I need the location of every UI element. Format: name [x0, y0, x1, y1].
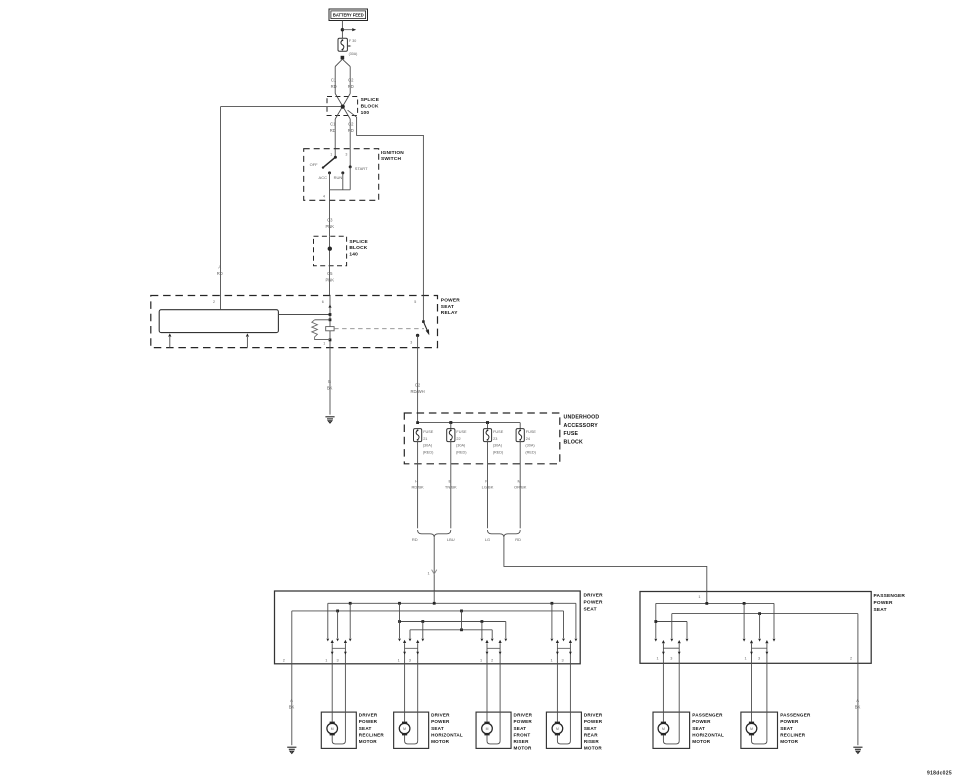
svg-text:6: 6: [322, 300, 324, 304]
wire fuse output: [450, 442, 452, 529]
driver switch bus A: [328, 602, 576, 604]
bus A left drop: [655, 603, 657, 638]
svg-text:C1: C1: [331, 78, 337, 83]
wire to motor -: [499, 664, 501, 741]
svg-text:LG/BK: LG/BK: [482, 485, 494, 490]
ignition pivot: [334, 156, 337, 159]
svg-text:RECLINER: RECLINER: [359, 732, 385, 737]
wire RUN down: [342, 173, 344, 190]
svg-text:RD: RD: [515, 537, 521, 542]
svg-text:POWER: POWER: [359, 719, 378, 724]
wire to motor +: [331, 664, 333, 722]
splice X leg: [335, 94, 350, 120]
svg-text:H: H: [415, 479, 418, 484]
svg-text:POWER: POWER: [584, 600, 603, 606]
svg-text:100: 100: [361, 110, 370, 116]
svg-text:(30A): (30A): [456, 444, 466, 448]
wire to motor +: [662, 663, 664, 721]
svg-text:(RED): (RED): [456, 450, 467, 454]
svg-text:SEAT: SEAT: [584, 607, 597, 613]
driver recliner motor M1: [321, 712, 356, 748]
ignition switch arm (OFF position): [323, 157, 335, 167]
svg-text:PNK: PNK: [325, 224, 334, 229]
driver front riser motor M3: [476, 712, 511, 748]
svg-text:RD: RD: [412, 537, 418, 542]
bus A junction: [349, 602, 352, 605]
svg-text:M: M: [331, 727, 334, 731]
bus A junction: [743, 602, 746, 605]
svg-text:(30A): (30A): [423, 444, 433, 448]
wire to motor +: [404, 664, 406, 722]
wire bus C to cluster 3 left contact: [481, 622, 483, 639]
svg-text:3: 3: [410, 341, 412, 345]
relay internal module U1: [159, 310, 278, 333]
wire ign pin3 to START contact: [349, 149, 351, 167]
splice junction S140: [328, 247, 332, 251]
junction: [329, 318, 332, 321]
power seat relay box: [151, 296, 438, 348]
svg-text:PASSENGER: PASSENGER: [874, 593, 906, 599]
svg-text:C2: C2: [348, 122, 354, 127]
svg-text:POWER: POWER: [514, 719, 533, 724]
svg-text:3: 3: [409, 658, 411, 662]
svg-text:3: 3: [670, 656, 672, 660]
relay coil L1: [315, 319, 330, 321]
wire module to coil node: [278, 314, 330, 316]
svg-text:1: 1: [398, 658, 400, 662]
svg-text:2: 2: [213, 300, 215, 304]
bus A left drop: [327, 603, 329, 638]
svg-text:C5: C5: [327, 271, 333, 276]
wire to motor -: [344, 664, 346, 741]
svg-text:3: 3: [758, 656, 760, 660]
svg-text:POWER: POWER: [780, 719, 799, 724]
bus C junction: [421, 620, 424, 623]
svg-text:RD: RD: [217, 271, 223, 276]
wire driver switch to ground: [291, 664, 293, 745]
fuse F22: [450, 423, 452, 429]
svg-text:C1: C1: [330, 122, 336, 127]
wire relay output inside box: [417, 335, 419, 347]
switch contacts passenger recliner switch: [743, 639, 746, 642]
wire to motor +: [751, 663, 753, 721]
svg-text:IGNITION: IGNITION: [381, 150, 404, 156]
svg-text:M: M: [486, 727, 489, 731]
svg-text:21: 21: [423, 437, 427, 441]
svg-text:FUSE: FUSE: [423, 430, 434, 434]
wire ACC down: [329, 173, 331, 190]
svg-text:C2: C2: [415, 383, 421, 388]
svg-text:OR/BK: OR/BK: [514, 485, 527, 490]
wire fuse output: [417, 442, 419, 529]
svg-text:(30A): (30A): [525, 444, 535, 448]
svg-text:RD: RD: [348, 84, 354, 89]
relay fixed contact: [416, 334, 419, 337]
svg-text:RD: RD: [330, 128, 336, 133]
wire to motor +: [486, 664, 488, 722]
svg-text:HORIZONTAL: HORIZONTAL: [692, 732, 724, 737]
svg-text:24: 24: [526, 437, 530, 441]
svg-text:ACC: ACC: [319, 175, 328, 180]
svg-text:OFF: OFF: [310, 162, 319, 167]
svg-text:4: 4: [323, 195, 325, 199]
bus B right drop: [563, 611, 565, 638]
driver switch bus D: [410, 629, 492, 631]
svg-text:RECLINER: RECLINER: [780, 732, 806, 737]
driver horizontal motor M2: [394, 712, 429, 748]
passenger switch bus A: [656, 602, 774, 604]
driver power seat switch box: [275, 591, 581, 664]
fuse F23: [487, 423, 489, 429]
svg-text:2: 2: [491, 658, 493, 662]
switch contacts passenger horizontal switch: [654, 639, 657, 642]
svg-text:RELAY: RELAY: [441, 310, 458, 316]
svg-text:SWITCH: SWITCH: [381, 156, 401, 162]
bus C junction: [481, 620, 484, 623]
svg-text:FRONT: FRONT: [514, 732, 531, 737]
svg-text:UNDERHOOD: UNDERHOOD: [564, 415, 600, 421]
wire splice to left run: [221, 106, 342, 108]
wire feed into driver switch: [433, 591, 435, 603]
svg-text:M: M: [556, 727, 559, 731]
wire right branch down: [349, 67, 351, 94]
wire splice to left branch: [335, 59, 342, 66]
wire bus A to cluster 2 left contact: [399, 603, 401, 638]
wire ign pin1 to pivot: [334, 149, 336, 158]
svg-text:BK: BK: [327, 385, 333, 390]
in-line connector arrow: [341, 28, 344, 31]
wire relay pin2 into module: [220, 296, 222, 310]
svg-text:1: 1: [428, 571, 430, 575]
svg-text:RD/BK: RD/BK: [411, 485, 424, 490]
bus D junction: [460, 628, 463, 631]
module output arrow: [246, 333, 249, 336]
bus B ground drop: [857, 614, 859, 664]
bus A junction: [433, 602, 436, 605]
wire feed into passenger switch: [706, 592, 708, 604]
wire splice to relay contact: [348, 110, 424, 295]
svg-text:START: START: [355, 166, 368, 171]
svg-text:BK: BK: [855, 704, 861, 709]
bus junction: [486, 421, 489, 424]
wire to ignition switch pin: [349, 119, 351, 149]
svg-text:BATTERY FEED: BATTERY FEED: [333, 13, 364, 18]
svg-text:1: 1: [698, 595, 700, 599]
wire to motor +: [556, 664, 558, 722]
svg-text:1: 1: [480, 658, 482, 662]
wire ignition to splice block 140: [329, 200, 331, 236]
driver switch bus B: [292, 610, 564, 612]
ignition switch box: [304, 149, 379, 201]
junction: [329, 313, 332, 316]
bus B junction: [336, 610, 339, 613]
wire bus A to cluster 1 right contact: [349, 603, 351, 638]
svg-text:DRIVER: DRIVER: [584, 593, 604, 599]
svg-text:B: B: [328, 379, 331, 384]
bus A junction: [398, 602, 401, 605]
svg-text:RISER: RISER: [514, 739, 530, 744]
wire merged feed to passenger seat switch: [504, 537, 707, 591]
svg-text:BLOCK: BLOCK: [361, 104, 379, 110]
svg-text:M: M: [518, 479, 521, 484]
passenger switch bus E: [656, 621, 687, 623]
svg-text:(RED): (RED): [525, 450, 536, 454]
svg-text:3: 3: [561, 658, 563, 662]
bus A right drop: [575, 603, 577, 638]
bus C junction: [398, 620, 401, 623]
driver switch bus C: [400, 621, 506, 623]
fuse F21: [414, 429, 422, 442]
passenger horizontal motor M5: [653, 712, 690, 748]
wire bus B to cluster contact: [759, 614, 761, 639]
underhood accessory fuse block: [404, 413, 560, 464]
relay armature anchor: [326, 327, 334, 331]
svg-text:MOTOR: MOTOR: [359, 739, 377, 744]
svg-text:POWER: POWER: [584, 719, 603, 724]
svg-text:MOTOR: MOTOR: [584, 746, 602, 751]
junction: [329, 339, 332, 342]
wire bus C to cluster 2 right contact: [422, 622, 424, 639]
svg-text:PNK: PNK: [325, 277, 334, 282]
svg-text:RD: RD: [348, 128, 354, 133]
splice block 100: [327, 97, 358, 116]
contact START: [349, 165, 352, 168]
wire splice to right branch: [342, 59, 350, 66]
splice junction S100: [341, 105, 345, 109]
svg-text:SEAT: SEAT: [514, 726, 527, 731]
svg-text:HORIZONTAL: HORIZONTAL: [431, 732, 463, 737]
brace splice (fuses 23+24): [488, 530, 521, 537]
fuse F24: [519, 423, 521, 429]
svg-text:DRIVER: DRIVER: [584, 713, 603, 718]
contact ACC: [328, 171, 331, 174]
svg-text:3: 3: [345, 152, 347, 156]
splice (solid) below fuse: [341, 56, 345, 60]
svg-text:22: 22: [456, 437, 460, 441]
switch contacts driver recliner switch: [326, 639, 329, 642]
ground (relay coil): [325, 417, 334, 423]
wire ignition output: [329, 190, 331, 201]
svg-text:140: 140: [349, 251, 358, 257]
wire join bar: [330, 189, 351, 191]
svg-text:MOTOR: MOTOR: [780, 739, 798, 744]
svg-text:BLOCK: BLOCK: [564, 440, 583, 446]
svg-text:SEAT: SEAT: [359, 726, 372, 731]
bus B ground drop: [291, 611, 293, 664]
switch contacts driver front riser switch: [481, 639, 484, 642]
svg-text:POWER: POWER: [441, 298, 460, 304]
battery feed box: [329, 9, 368, 21]
svg-text:F 30: F 30: [349, 39, 356, 43]
svg-text:SPLICE: SPLICE: [349, 239, 368, 245]
svg-text:M: M: [403, 727, 406, 731]
svg-text:DRIVER: DRIVER: [359, 713, 378, 718]
driver rear riser motor M4: [546, 712, 581, 748]
svg-text:MOTOR: MOTOR: [431, 739, 449, 744]
wire bus A to cluster 4 left contact: [551, 603, 553, 638]
svg-text:REAR: REAR: [584, 732, 598, 737]
svg-text:A: A: [856, 698, 859, 703]
svg-text:(RED): (RED): [423, 450, 434, 454]
wire to motor -: [569, 664, 571, 741]
svg-text:RD: RD: [331, 84, 337, 89]
svg-text:1: 1: [330, 152, 332, 156]
wire bus B to bus D: [461, 611, 463, 630]
fuse F (main feed): [338, 38, 347, 51]
svg-text:1: 1: [745, 656, 747, 660]
bus B junction: [460, 610, 463, 613]
svg-text:3: 3: [336, 658, 338, 662]
svg-text:MOTOR: MOTOR: [514, 746, 532, 751]
svg-text:C3: C3: [327, 218, 333, 223]
bus A junction: [705, 602, 708, 605]
passenger power seat switch box: [640, 592, 871, 664]
bus E right drop: [686, 622, 688, 639]
svg-text:ACCESSORY: ACCESSORY: [564, 423, 599, 429]
wire relay output to fuse block: [417, 348, 419, 423]
splice X leg: [335, 94, 350, 120]
bus C right drop: [505, 622, 507, 639]
bus B left drop: [671, 614, 673, 639]
svg-text:SEAT: SEAT: [692, 726, 705, 731]
switch contacts driver rear riser switch: [551, 639, 554, 642]
wire fuse output: [487, 442, 489, 529]
svg-text:DRIVER: DRIVER: [431, 713, 450, 718]
bus A junction: [551, 602, 554, 605]
bus junction: [449, 421, 452, 424]
wire relay coil to ground: [329, 348, 331, 415]
svg-text:C2: C2: [348, 78, 354, 83]
svg-text:(30A): (30A): [493, 444, 503, 448]
passenger switch bus B: [672, 613, 858, 615]
svg-text:SPLICE: SPLICE: [361, 97, 380, 103]
svg-text:RISER: RISER: [584, 739, 600, 744]
brace splice (fuses 21+22): [418, 530, 451, 537]
contact RUN: [341, 171, 344, 174]
svg-text:LBU: LBU: [447, 537, 455, 542]
wire START down: [349, 167, 351, 190]
svg-text:M: M: [662, 727, 665, 731]
svg-text:DRIVER: DRIVER: [514, 713, 533, 718]
svg-text:SEAT: SEAT: [584, 726, 597, 731]
svg-text:E: E: [448, 479, 451, 484]
switch contacts driver horizontal switch: [398, 639, 401, 642]
bus A right drop: [773, 603, 775, 638]
in-line connector C1: [432, 570, 437, 574]
wire left branch down: [334, 67, 336, 94]
svg-text:(30A): (30A): [349, 52, 358, 56]
bus D left drop: [409, 630, 411, 638]
wire relay pin5 to contact: [422, 296, 424, 322]
wire through splice 140 to relay: [329, 236, 331, 295]
wire bus B to cluster 1 centre contact: [337, 611, 339, 638]
svg-text:(RED): (RED): [493, 450, 504, 454]
bus B junction: [758, 612, 761, 615]
wire fuse output: [519, 442, 521, 529]
wire passenger switch to ground: [857, 663, 859, 745]
svg-text:SEAT: SEAT: [441, 304, 454, 310]
wire bus A to cluster contact: [743, 603, 745, 638]
wire left run down to relay: [220, 107, 222, 296]
svg-text:POWER: POWER: [431, 719, 450, 724]
svg-text:SEAT: SEAT: [780, 726, 793, 731]
svg-text:5: 5: [414, 300, 416, 304]
svg-text:SEAT: SEAT: [431, 726, 444, 731]
svg-text:FUSE: FUSE: [526, 430, 537, 434]
svg-text:MOTOR: MOTOR: [692, 739, 710, 744]
svg-text:FUSE: FUSE: [456, 430, 467, 434]
svg-text:2: 2: [283, 658, 285, 662]
svg-text:PASSENGER: PASSENGER: [780, 713, 811, 718]
module output arrow: [168, 333, 171, 336]
svg-text:RUN: RUN: [334, 175, 343, 180]
fuse block bus bar: [418, 422, 521, 424]
splice block 140: [314, 236, 347, 265]
svg-text:RD/WH: RD/WH: [410, 389, 424, 394]
svg-text:POWER: POWER: [692, 719, 711, 724]
svg-text:TN/BK: TN/BK: [445, 485, 457, 490]
bus E junction: [654, 620, 657, 623]
svg-text:1: 1: [656, 656, 658, 660]
wire to ignition switch pin: [334, 119, 336, 149]
wire to motor -: [766, 663, 768, 741]
ground (driver seat): [287, 747, 296, 753]
wire to motor -: [678, 663, 680, 741]
svg-text:1: 1: [550, 658, 552, 662]
svg-text:BLOCK: BLOCK: [349, 245, 367, 251]
svg-text:2: 2: [850, 656, 852, 660]
svg-text:A: A: [290, 698, 293, 703]
svg-text:LG: LG: [485, 537, 490, 542]
wire battery feed to fuse: [341, 21, 343, 39]
svg-text:FUSE: FUSE: [564, 431, 579, 437]
svg-text:23: 23: [493, 437, 497, 441]
passenger recliner motor M6: [741, 712, 778, 748]
svg-text:1: 1: [323, 342, 325, 346]
wire merged feed to driver seat switch: [433, 537, 435, 591]
wire to motor -: [417, 664, 419, 741]
relay coil feed wire with arrow: [329, 296, 331, 348]
svg-text:918dc025: 918dc025: [927, 771, 952, 777]
svg-text:FUSE: FUSE: [493, 430, 504, 434]
svg-text:M: M: [750, 727, 753, 731]
svg-text:BK: BK: [289, 704, 295, 709]
svg-text:1: 1: [325, 658, 327, 662]
svg-text:SEAT: SEAT: [874, 607, 887, 613]
svg-text:A: A: [218, 265, 221, 270]
svg-text:POWER: POWER: [874, 600, 893, 606]
bus D right drop: [491, 630, 493, 638]
ground (passenger seat): [853, 747, 862, 753]
svg-text:PASSENGER: PASSENGER: [692, 713, 723, 718]
